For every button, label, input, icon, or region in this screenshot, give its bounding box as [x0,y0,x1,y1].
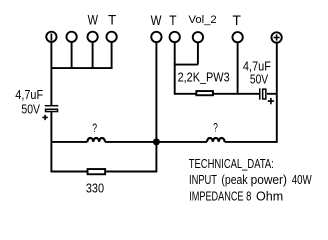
wire B3 stub down [197,43,199,65]
terminal B5 (+) [271,32,281,42]
inductor L1 [87,138,105,142]
wire C1 down to mid node [50,112,52,173]
capacitor C2 left plate [259,88,261,99]
terminal B2 (T) [170,32,180,42]
svg-text:2,2K_PW3: 2,2K_PW3 [178,70,230,85]
wire bottom right of resistor [106,171,156,173]
svg-text:IMPEDANCE: IMPEDANCE [189,190,243,204]
svg-text:4,7uF: 4,7uF [243,59,271,74]
svg-text:(peak: (peak [221,173,247,187]
svg-text:Vol_2: Vol_2 [189,14,217,26]
wire mid horizontal L1 to junction [105,141,156,143]
svg-text:330: 330 [86,180,105,195]
terminal B1 (W) [151,32,161,42]
wire mid horizontal junction to L2 [156,141,207,143]
svg-text:?: ? [92,123,97,135]
capacitor C2 right plate box [263,89,266,99]
wire A4 stub [111,42,113,69]
inductor L2 [207,138,225,142]
svg-text:power): power) [251,173,287,187]
svg-text:INPUT: INPUT [189,174,217,188]
wire C2 to right riser [267,93,277,95]
svg-text:40W: 40W [292,174,312,188]
wire B5 down right riser [276,43,278,143]
terminal B3 (Vol_2) [193,32,203,42]
terminal A3 (W) [87,32,97,42]
wire A3 stub [92,42,94,69]
svg-text:T: T [169,13,177,28]
wire left of R2 [175,93,197,95]
terminal A4 (T) [106,32,116,42]
capacitor C1 bottom plate box [46,109,58,111]
wire mid horizontal left of L1 [51,141,87,143]
wire A2 stub [71,42,73,69]
svg-text:T: T [108,13,116,28]
capacitor C1 top plate [45,105,59,107]
wire mid horizontal L2 to right riser [225,141,277,143]
wire bottom up to junction [155,142,157,173]
wire B3 to B2 connector [174,64,198,66]
wire B2 down to resistor wire [174,42,176,94]
terminal B4 (T) [232,32,242,42]
svg-text:50V: 50V [250,74,268,87]
resistor R330 box [88,169,106,174]
wire A1 stub down to bus and cap [50,42,52,105]
junction dot [153,138,160,145]
wire bottom left down [51,171,87,173]
wire B1 down to junction [155,42,157,142]
terminal B5 plus sign [274,34,280,40]
svg-text:?: ? [213,122,218,134]
svg-text:50V: 50V [21,102,40,116]
capacitor C1 plus sign [42,115,47,120]
wire B4 down [237,43,239,95]
wire right of R2 to C2 [213,93,260,95]
svg-text:W: W [151,13,162,28]
svg-text:TECHNICAL_DATA:: TECHNICAL_DATA: [189,158,274,172]
terminal A1 inner bar [50,34,52,41]
capacitor C2 plus sign [268,98,274,104]
svg-text:4,7uF: 4,7uF [15,87,43,102]
svg-text:W: W [88,12,99,27]
svg-text:Ohm: Ohm [256,189,283,203]
terminal A2 [66,32,76,42]
terminal A1 (speaker input +) [46,32,56,42]
resistor R2 2,2K_PW3 box [196,91,213,95]
svg-text:T: T [232,13,241,28]
svg-text:8: 8 [246,190,251,204]
wire bus group1 [51,67,113,69]
